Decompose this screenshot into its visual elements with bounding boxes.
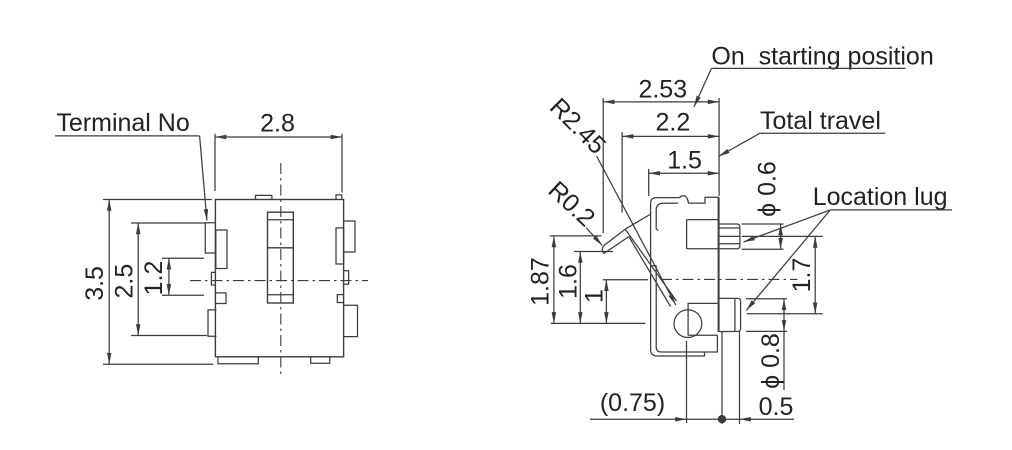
dimension 1.5: dimension line with arrows <box>649 172 719 174</box>
svg-text:Total travel: Total travel <box>760 107 881 135</box>
label Total travel: leader with arrow <box>719 133 761 156</box>
right view: side location lug outline <box>719 298 740 331</box>
left view: lower-left small square <box>216 293 226 304</box>
left view: actuator lower line <box>268 294 294 296</box>
svg-text:On starting position: On starting position <box>711 42 933 70</box>
dimension phi0.8: dimension line with arrows <box>783 299 785 332</box>
svg-text:1.7: 1.7 <box>788 258 816 293</box>
right view: lug left extension line down to dot <box>721 332 723 425</box>
left view: terminal upper-left outer <box>205 223 216 253</box>
dimension (0.75): dimension line with arrow to circle center line <box>590 418 687 420</box>
dimension 2.8: left extension line <box>214 134 216 191</box>
right view: plunger base left edge <box>686 220 688 249</box>
right view: lever upper edge short segment to wall <box>625 214 651 229</box>
left view: central actuator body <box>268 212 294 303</box>
label Terminal No: leader line with arrow to terminal <box>200 136 207 221</box>
dimension 1.5: left extension line <box>648 169 650 196</box>
dimension 2.5: top extension line <box>131 222 205 224</box>
svg-text:1: 1 <box>581 289 609 303</box>
right view: lever slot top tick on left wall <box>651 265 656 267</box>
dimension phi0.6: bottom extension line <box>742 248 784 250</box>
label R0.2: leader with arrow to lever tip <box>586 228 602 246</box>
left view: lower-right small square <box>337 295 343 303</box>
left view: terminal upper-right outer <box>344 221 355 252</box>
dimension 2.2: dimension line with arrows <box>622 135 719 137</box>
right view: plunger shaft ridge line 1 <box>719 227 740 229</box>
dimension 1.6: dimension line with arrows <box>579 252 581 324</box>
svg-text:1.5: 1.5 <box>667 146 702 174</box>
right view: plunger base top edge <box>687 219 719 221</box>
right view: lever tip cap (R0.2 tip) <box>602 246 603 254</box>
left view: bottom tab right <box>311 357 330 364</box>
dimension 2.8: dimension line with arrows <box>215 136 342 138</box>
dimension 0.5: datum dot <box>718 415 726 423</box>
dimension 1.87: dimension line with arrows <box>553 236 555 324</box>
dimension 1.7: bottom extension line <box>747 313 823 315</box>
left view: right center stub <box>344 271 349 284</box>
svg-text:1.87: 1.87 <box>527 257 555 306</box>
dimension 3.5: dimension line with arrows <box>108 200 110 365</box>
right view: lever arm upper edge to pivot <box>625 229 676 301</box>
right view: inner lug rectangle bottom <box>688 334 717 336</box>
right view: lever arm lower edge to pivot <box>629 237 671 307</box>
dimension phi0.8: top extension line <box>746 298 787 300</box>
dimension 3.5: bottom extension line <box>103 363 213 365</box>
right view: horizontal centerline (dash-dot) <box>661 278 798 280</box>
svg-text:1.2: 1.2 <box>140 261 168 296</box>
label On starting position: leader with arrow <box>694 68 711 107</box>
svg-text:2.5: 2.5 <box>111 264 139 299</box>
dimension 1.2: top extension line <box>162 257 204 259</box>
svg-text:ϕ 0.8: ϕ 0.8 <box>757 333 785 389</box>
left view: terminal upper-left inner plate <box>216 230 227 269</box>
svg-text:ϕ 0.6: ϕ 0.6 <box>754 161 782 217</box>
right view: inner lug rectangle behind circle <box>688 303 717 335</box>
left view: switch body outline <box>215 200 343 357</box>
dimensions 1.87/1.6/1: bottom common extension line <box>551 322 645 324</box>
label Location lug: leader 1 with arrow to plunger shaft <box>744 210 831 242</box>
left view: top mounting tab left <box>256 195 272 199</box>
right view: side lug inner line <box>734 298 736 331</box>
right view: circle-center extension line down <box>686 341 688 423</box>
left view: vertical centerline <box>280 163 282 375</box>
dimension 1.7: top extension line <box>742 235 823 237</box>
left view: actuator middle line <box>268 247 294 249</box>
right view: plunger shaft ridge line 3 <box>719 243 740 245</box>
dimension 2.5: bottom extension line <box>131 335 207 337</box>
left view: terminal lower-right outer <box>344 305 358 336</box>
dimension 2.53: left extension line <box>602 98 604 233</box>
right view: body outer bottom <box>651 350 705 357</box>
svg-text:2.2: 2.2 <box>656 109 691 137</box>
right view: plunger base bottom edge <box>687 248 719 250</box>
dimension 2.5: dimension line with arrows <box>137 223 139 336</box>
dimension 1: dimension line with arrows <box>605 280 607 324</box>
right view: lever upper edge to bend <box>604 229 625 245</box>
right view: body inner top edge <box>663 202 678 204</box>
dimension line segment between (0.75) and 0.5 references <box>687 418 740 420</box>
right view: lever lower edge to bend <box>604 237 629 254</box>
right view: lug right extension line down <box>739 332 741 425</box>
right view: body right edge (bold) <box>718 197 720 332</box>
dimension 1.87: top extension line <box>550 235 602 237</box>
left view: actuator upper line <box>268 219 294 221</box>
label On starting position: underline <box>711 67 905 69</box>
dimension 2.8: right extension line <box>341 134 343 193</box>
dimension phi0.6: dimension line with arrows <box>780 224 782 249</box>
left view: horizontal centerline <box>190 280 368 282</box>
dimensions 2.53/2.2/1.5: right common extension line <box>718 98 720 196</box>
svg-text:0.5: 0.5 <box>759 393 794 421</box>
label Location lug: leader 2 with arrow to side lug <box>746 210 830 311</box>
right view: plunger shaft ridge line 2 <box>719 235 740 237</box>
dimension 1.2: bottom extension line <box>162 294 204 296</box>
right view: body inner wall lower segment <box>655 266 657 347</box>
right view: pivot circle (lever hinge) <box>674 310 702 338</box>
svg-text:(0.75): (0.75) <box>600 389 665 417</box>
label R2.45: leader with arrow to pivot circle <box>597 156 676 305</box>
left view: left center stub <box>211 272 215 285</box>
dimension 3.5: top extension line <box>103 199 212 201</box>
svg-text:Terminal No: Terminal No <box>56 109 189 137</box>
left view: terminal lower-left outer <box>208 310 217 336</box>
right view: body inner wall upper segment with hook <box>656 203 663 231</box>
right view: body outer contour <box>651 196 719 350</box>
svg-text:2.53: 2.53 <box>638 76 687 104</box>
dimension 0.5: line from dot to right with arrow at lug line <box>740 418 795 420</box>
left view: terminal upper-right inner plate <box>336 228 344 264</box>
right view: plunger shaft outline <box>719 224 740 249</box>
dimension 1.6: top extension line <box>574 251 613 253</box>
right view: body inner bottom flange <box>656 335 717 352</box>
dimension 2.53: dimension line with arrows <box>603 101 719 103</box>
left view: top mounting tab right corner <box>336 195 342 200</box>
dimension phi0.6: top extension line <box>742 223 784 225</box>
dimension 2.2: left extension line <box>621 132 623 213</box>
dimension phi0.8: tail line below <box>783 331 785 390</box>
svg-text:2.8: 2.8 <box>260 110 295 138</box>
svg-text:Location lug: Location lug <box>813 183 948 211</box>
svg-text:1.6: 1.6 <box>555 264 583 299</box>
dimension phi0.8: bottom extension line <box>746 330 787 332</box>
dimension 1.2: dimension line with arrows <box>168 258 170 295</box>
label Location lug: underline <box>830 209 952 211</box>
label Terminal No: underline <box>55 135 200 137</box>
svg-text:3.5: 3.5 <box>81 266 109 301</box>
dimension 1: top extension line <box>603 279 648 281</box>
dimension 1.7: dimension line with arrows <box>814 236 816 313</box>
label Total travel: underline <box>760 132 885 134</box>
left view: bottom tab left <box>218 357 258 364</box>
